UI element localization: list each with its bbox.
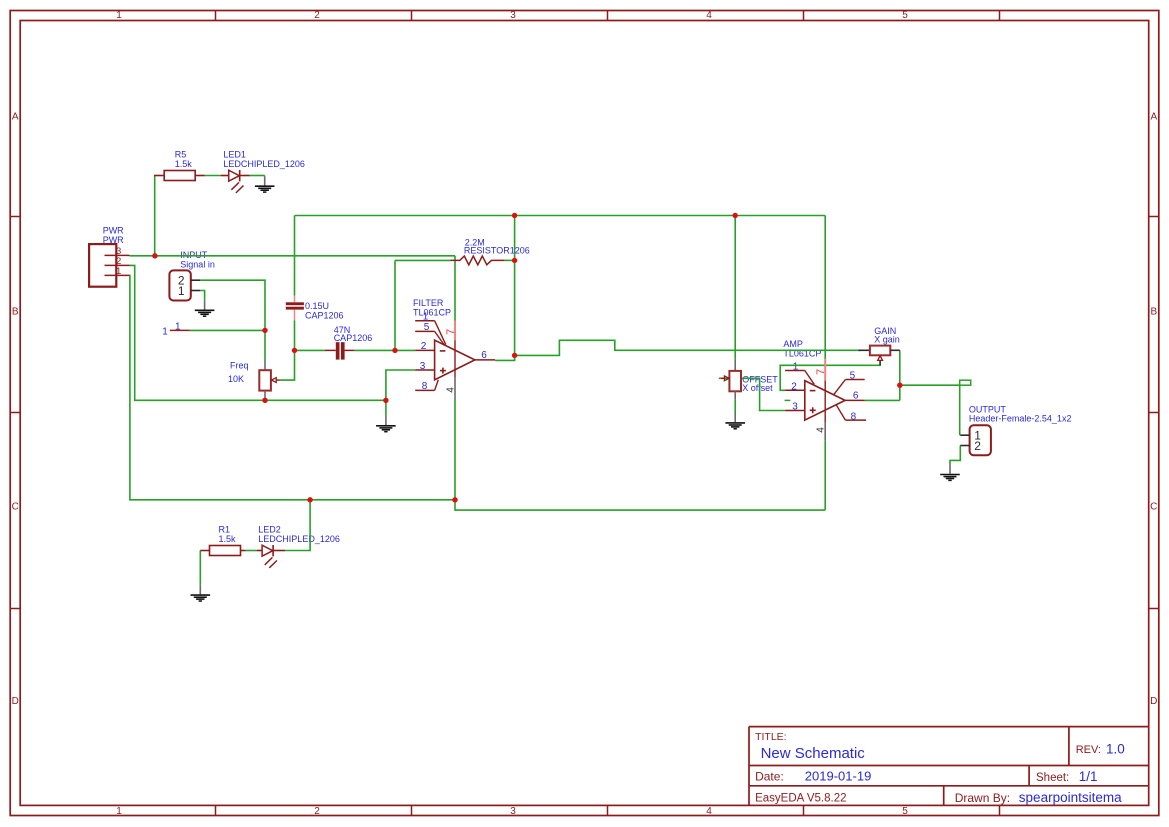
- svg-text:7: 7: [445, 329, 457, 335]
- pin number 2 (AMP): [791, 381, 797, 392]
- value TL061CP (AMP): [783, 349, 821, 359]
- pin 4 power (AMP): [816, 422, 827, 440]
- svg-text:4: 4: [706, 10, 712, 21]
- wire 2.2M right to output column: [505, 259, 515, 261]
- pin 7 power (FILTER): [445, 321, 457, 341]
- wire R1 left to ground: [199, 551, 201, 586]
- junction output column / wire to AMP: [512, 353, 517, 358]
- resistor R5: [154, 171, 205, 181]
- value 47N: [334, 325, 351, 335]
- wire node to C 47N: [295, 349, 326, 351]
- wire V+ column (PWR pin3 to FILTER pin7, pin4 to negative rail): [454, 256, 456, 500]
- wire PWR pin3 to FILTER V+ column: [130, 255, 456, 257]
- svg-text:7: 7: [815, 369, 827, 375]
- value Signal in: [180, 260, 215, 270]
- wire LED2 to negative rail: [285, 500, 310, 551]
- label Freq: [230, 361, 249, 371]
- wire 47N to FILTER pin2: [354, 349, 415, 351]
- value LEDCHIPLED_1206 (LED2): [258, 534, 340, 544]
- ground (OUTPUT): [940, 465, 960, 481]
- wire stub near AMP pin3: [785, 399, 791, 401]
- wire top rail down to C 0.15U: [294, 216, 296, 296]
- pin 7 power (AMP): [815, 359, 827, 380]
- net port name 1: [162, 326, 168, 337]
- pin number 2 (OUTPUT): [974, 439, 981, 453]
- svg-text:4: 4: [445, 387, 456, 393]
- wire R1 to LED2: [245, 550, 257, 552]
- potentiometer Freq: [259, 361, 279, 399]
- potentiometer OFFSET: [721, 359, 741, 400]
- pin number 6 (FILTER): [481, 350, 487, 361]
- pin number 2 (PWR): [116, 256, 121, 267]
- svg-text:X offset: X offset: [742, 383, 773, 393]
- pin number 1 (INPUT): [178, 284, 185, 298]
- svg-text:5: 5: [902, 806, 908, 817]
- label R1: [219, 525, 231, 535]
- svg-text:2: 2: [974, 439, 981, 453]
- junction FILTER pin2 / feedback: [392, 348, 397, 353]
- pin number 2 (INPUT): [178, 273, 185, 287]
- value 1.5k (R1): [219, 534, 237, 544]
- svg-text:C: C: [1150, 502, 1157, 513]
- svg-text:LEDCHIPLED_1206: LEDCHIPLED_1206: [258, 534, 340, 544]
- capacitor 47N CAP1206: [325, 342, 354, 359]
- svg-text:2019-01-19: 2019-01-19: [805, 769, 872, 784]
- junction negative rail / R1 branch: [307, 497, 312, 502]
- label INPUT: [180, 250, 208, 260]
- wire PWR pin2 down and across to FILTER pin3 node: [130, 265, 386, 400]
- svg-text:1: 1: [178, 284, 185, 298]
- svg-text:RESISTOR1206: RESISTOR1206: [464, 245, 530, 255]
- wire AMP pin4 down to negative rail: [824, 440, 826, 510]
- wire AMP pins1-2 feedback loop: [780, 361, 880, 390]
- svg-text:New Schematic: New Schematic: [761, 745, 866, 762]
- value 1.5k (R5): [175, 159, 193, 169]
- junction net1 / INPUT pin2: [262, 328, 267, 333]
- svg-text:Freq: Freq: [230, 361, 249, 371]
- wire output node to OUTPUT connector: [900, 385, 960, 435]
- pin number 1 (FILTER): [423, 312, 429, 323]
- junction negative rail / FILTER pin4: [452, 497, 457, 502]
- wire loop artifact at output: [960, 380, 971, 385]
- junction Freq bottom / pin2 rail: [262, 398, 267, 403]
- svg-text:TITLE:: TITLE:: [755, 731, 787, 743]
- label LED1: [223, 150, 246, 160]
- svg-text:4: 4: [706, 806, 712, 817]
- wire LED1 to ground: [250, 175, 265, 177]
- svg-text:2: 2: [314, 10, 320, 21]
- wire AMP pin6 to output node: [865, 399, 900, 401]
- ground (LED1): [255, 176, 275, 193]
- wire top rail down to AMP pin7: [824, 216, 826, 360]
- connector OUTPUT: [960, 425, 991, 455]
- pin number 3 (FILTER): [420, 361, 426, 372]
- wire FILTER pin3 to ground node: [386, 370, 415, 400]
- value LEDCHIPLED_1206 (LED1): [223, 159, 305, 169]
- resistor R1: [200, 546, 245, 556]
- svg-text:5: 5: [902, 10, 908, 21]
- wire R5 left to PWR pin3 junction: [154, 176, 156, 256]
- ground (FILTER pin3 node): [376, 416, 396, 432]
- svg-text:B: B: [1150, 307, 1157, 318]
- label AMP: [783, 339, 803, 349]
- svg-text:EasyEDA V5.8.22: EasyEDA V5.8.22: [755, 793, 846, 805]
- LED LED1: [221, 170, 250, 193]
- wire PWR pin1 down to negative rail: [130, 275, 456, 499]
- junction output node: [897, 383, 902, 388]
- svg-text:D: D: [12, 696, 19, 707]
- svg-text:Drawn By:: Drawn By:: [955, 791, 1010, 805]
- svg-text:CAP1206: CAP1206: [334, 333, 373, 343]
- pin 7/4 through line (AMP): [824, 381, 826, 422]
- wire negative rail jog: [455, 500, 825, 510]
- wire OFFSET wiper to AMP pin3: [719, 378, 785, 410]
- svg-text:1/1: 1/1: [1079, 769, 1098, 784]
- pin number 3 (PWR): [116, 246, 121, 257]
- pin number 6 (AMP): [853, 391, 859, 402]
- svg-text:1: 1: [162, 326, 168, 337]
- label GAIN: [874, 326, 896, 336]
- value PWR: [103, 235, 124, 245]
- label PWR: [103, 225, 124, 235]
- label LED2: [258, 525, 281, 535]
- ground (INPUT): [195, 300, 215, 316]
- wire GAIN right down to output node: [899, 350, 901, 400]
- pin number 1 (AMP): [793, 362, 799, 373]
- value 0.15U: [305, 301, 329, 311]
- net label 1: [175, 322, 181, 333]
- svg-text:1.5k: 1.5k: [219, 534, 237, 544]
- wire feedback 2.2M left to FILTER pin2: [394, 260, 396, 350]
- wire FILTER output column: [495, 216, 514, 361]
- label RESISTOR1206 (2.2M): [464, 245, 530, 255]
- resistor 2.2M RESISTOR1206: [450, 256, 504, 265]
- connector INPUT: [169, 270, 200, 300]
- svg-text:LEDCHIPLED_1206: LEDCHIPLED_1206: [223, 159, 305, 169]
- pin number 5 (AMP): [850, 370, 856, 381]
- svg-text:Header-Female-2.54_1x2: Header-Female-2.54_1x2: [969, 414, 1072, 424]
- svg-text:4: 4: [816, 427, 827, 433]
- op-amp AMP TL061CP: [785, 371, 866, 421]
- wire OFFSET bottom to ground: [734, 400, 736, 413]
- label FILTER: [413, 298, 444, 308]
- wire FILTER output to GAIN left (with jog): [515, 340, 861, 355]
- value X offset: [742, 383, 773, 393]
- svg-text:CAP1206: CAP1206: [305, 310, 344, 320]
- svg-text:A: A: [1150, 112, 1157, 123]
- junction PWR pin3 / R5: [152, 253, 157, 258]
- svg-text:Date:: Date:: [755, 769, 784, 783]
- svg-text:1.0: 1.0: [1106, 742, 1125, 757]
- value 2.2M: [465, 237, 485, 247]
- label OUTPUT: [969, 405, 1007, 415]
- junction top rail / output column: [512, 213, 517, 218]
- net port 1 pin: [170, 329, 190, 331]
- pin 4 power (FILTER): [445, 377, 456, 400]
- svg-text:B: B: [12, 307, 19, 318]
- wire top rail down to OFFSET pot: [734, 216, 736, 360]
- svg-text:2: 2: [314, 806, 320, 817]
- svg-text:10K: 10K: [228, 374, 244, 384]
- potentiometer GAIN: [858, 346, 899, 366]
- svg-text:D: D: [1150, 696, 1157, 707]
- svg-text:0.15U: 0.15U: [305, 301, 329, 311]
- svg-text:1: 1: [116, 10, 122, 21]
- junction filter input node: [292, 348, 297, 353]
- svg-text:REV:: REV:: [1076, 744, 1101, 756]
- junction pin3 node: [383, 398, 388, 403]
- pin number 5 (FILTER): [424, 322, 430, 333]
- pin number 3 (AMP): [792, 402, 798, 413]
- value TL061CP (FILTER): [413, 308, 451, 318]
- svg-text:spearpointsitema: spearpointsitema: [1019, 790, 1122, 805]
- svg-text:3: 3: [510, 806, 516, 817]
- svg-text:C: C: [12, 502, 19, 513]
- pin number 1 (PWR): [116, 266, 121, 277]
- svg-text:3: 3: [510, 10, 516, 21]
- label CAP1206 (47N): [334, 333, 373, 343]
- wire Freq wiper to filter input node: [280, 350, 295, 380]
- value 10K (Freq): [228, 374, 244, 384]
- svg-text:1: 1: [116, 806, 122, 817]
- ground (OFFSET): [725, 413, 745, 429]
- wire feedback left segment: [395, 259, 450, 261]
- junction top rail / OFFSET: [733, 213, 738, 218]
- ground (R1): [191, 585, 211, 601]
- svg-text:X gain: X gain: [874, 335, 900, 345]
- pin number 8 (AMP): [851, 411, 857, 422]
- svg-text:1.5k: 1.5k: [175, 159, 193, 169]
- label OFFSET: [742, 374, 778, 384]
- wire INPUT pin1 to ground: [200, 291, 204, 301]
- wire R5 to LED1: [205, 175, 221, 177]
- label R5: [175, 150, 187, 160]
- pin number 1 (OUTPUT): [974, 428, 981, 442]
- wire FILTER pin3 node to ground: [385, 400, 387, 416]
- value Header-Female-2.54_1x2: [969, 414, 1072, 424]
- wire OUTPUT pin2 to ground: [950, 446, 960, 465]
- pin number 2 (FILTER): [421, 341, 427, 352]
- LED LED2: [257, 545, 285, 568]
- capacitor 0.15U CAP1206: [286, 296, 304, 321]
- title block: [749, 727, 1149, 806]
- op-amp FILTER TL061CP: [415, 321, 495, 391]
- svg-text:A: A: [12, 112, 19, 123]
- svg-text:TL061CP: TL061CP: [413, 308, 451, 318]
- label CAP1206 (0.15U): [305, 310, 344, 320]
- wire INPUT pin2 to Freq pot top: [200, 280, 265, 360]
- wire net 1 to INPUT pin2 column: [190, 329, 266, 331]
- svg-text:Sheet:: Sheet:: [1036, 772, 1069, 784]
- value X gain: [874, 335, 900, 345]
- junction 2.2M / output column: [512, 258, 517, 263]
- wire top rail: [295, 215, 826, 217]
- svg-text:Signal in: Signal in: [180, 260, 215, 270]
- pin number 8 (FILTER): [422, 381, 428, 392]
- connector PWR: [89, 244, 129, 287]
- pin 7/4 through line (FILTER): [454, 340, 456, 377]
- wire 0.15U bottom to node: [294, 321, 296, 351]
